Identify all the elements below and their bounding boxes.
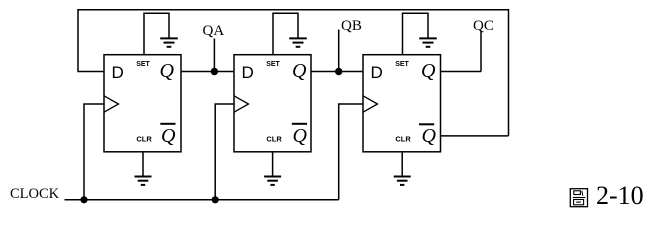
caption CJK glyph tu (figure) (570, 189, 587, 207)
svg-text:SET: SET (136, 61, 150, 68)
flip-flop U3 body (363, 55, 441, 152)
node QA vertical (213, 39, 215, 72)
wire Qbar3 output to feedback (441, 135, 509, 137)
svg-text:QC: QC (473, 18, 494, 34)
node QC vertical (480, 32, 482, 72)
U3 CLR ground (394, 152, 411, 185)
node QB vertical (338, 30, 340, 72)
svg-text:Q: Q (293, 125, 308, 147)
svg-text:SET: SET (395, 61, 409, 68)
U3 clock edge triangle (363, 96, 378, 112)
svg-text:Q: Q (161, 125, 176, 147)
svg-text:CLR: CLR (395, 135, 411, 144)
svg-text:Q: Q (160, 60, 175, 82)
svg-text:CLOCK: CLOCK (10, 186, 60, 202)
svg-text:QB: QB (341, 18, 362, 34)
svg-text:Q: Q (421, 60, 436, 82)
wire Q1 to D2 (181, 71, 234, 73)
svg-text:QA: QA (203, 23, 225, 39)
U2 CLR ground (264, 152, 281, 185)
svg-text:D: D (112, 63, 124, 82)
wire clock bus (65, 199, 339, 201)
U3 SET ground (403, 13, 437, 55)
U2 SET ground (273, 13, 307, 55)
U2 clock edge triangle (234, 96, 249, 112)
wire Q2 to D3 (311, 71, 363, 73)
wire clock branch to U2 (215, 104, 234, 200)
node QA junction dot (211, 68, 218, 75)
flip-flop U2 body (234, 55, 311, 152)
clock junction dot 1 (80, 196, 87, 203)
svg-text:CLR: CLR (266, 135, 282, 144)
svg-text:Q: Q (422, 125, 437, 147)
svg-text:D: D (371, 63, 383, 82)
svg-text:2-10: 2-10 (596, 181, 644, 210)
U1 clock edge triangle (104, 96, 119, 112)
U1 CLR ground (135, 152, 152, 185)
U1 SET ground (144, 13, 178, 55)
node QB junction dot (335, 68, 342, 75)
svg-text:SET: SET (266, 61, 280, 68)
wire clock branch to U1 (84, 104, 104, 200)
flip-flop U1 body (104, 55, 181, 152)
wire Q3 output (441, 71, 481, 73)
svg-text:CLR: CLR (136, 135, 152, 144)
wire clock branch to U3 (339, 104, 363, 200)
wire top feedback from Q3bar to D1 (78, 10, 509, 136)
svg-text:D: D (242, 63, 254, 82)
clock junction dot 2 (212, 196, 219, 203)
svg-text:Q: Q (292, 60, 307, 82)
